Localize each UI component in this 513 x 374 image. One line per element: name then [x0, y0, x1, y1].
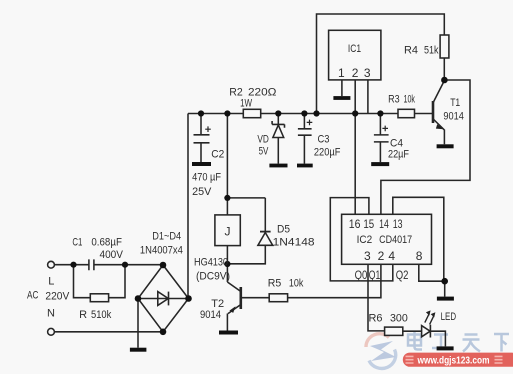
resistor R5 [269, 294, 287, 302]
wire L to C1 [54, 264, 88, 266]
svg-text:14: 14 [379, 217, 389, 231]
diode D5 [227, 232, 272, 264]
svg-text:L: L [48, 275, 54, 287]
wire LED to ground [430, 331, 445, 346]
resistor R4 [440, 35, 449, 58]
ground IC2 [444, 281, 446, 296]
ground VD [269, 164, 287, 168]
IC1 pin1 wire [341, 80, 343, 96]
ground T2 [219, 331, 238, 335]
svg-text:R4: R4 [404, 45, 418, 57]
node IC1 pin2 bus [352, 110, 358, 116]
watermark banner [403, 353, 513, 367]
relay J [215, 215, 240, 246]
transistor T2 [227, 282, 240, 331]
svg-text:C2: C2 [211, 149, 224, 161]
resistor R6 [385, 327, 403, 335]
svg-text:LED: LED [441, 311, 457, 323]
watermark text [408, 332, 509, 352]
IC2 pin13 wrap wire to ground node [393, 197, 444, 281]
svg-text:C1: C1 [72, 237, 82, 249]
node J bus [224, 110, 230, 116]
svg-text:22µF: 22µF [388, 148, 409, 160]
svg-text:220µF: 220µF [314, 147, 341, 159]
terminal N [48, 328, 55, 335]
svg-text:Q1: Q1 [369, 270, 381, 282]
ground C3 [297, 164, 313, 168]
bridge rectifier D1~D4 [138, 265, 189, 332]
capacitor C3 [298, 114, 312, 164]
resistor R3 [398, 109, 415, 117]
transistor T1 [433, 81, 444, 145]
svg-text:Q0: Q0 [355, 270, 368, 282]
node C1-R left [70, 262, 76, 268]
wire R4 bottom to collector node [443, 58, 445, 80]
wire bridge left vertex to ground [137, 299, 139, 348]
ground LED [437, 346, 454, 350]
wire J bottom to node [226, 246, 228, 282]
svg-text:R5: R5 [268, 277, 282, 289]
svg-text:25V: 25V [192, 186, 212, 198]
zener diode VD [272, 114, 284, 164]
svg-text:5V: 5V [259, 145, 269, 157]
svg-text:1W: 1W [240, 97, 252, 109]
svg-text:4: 4 [388, 249, 395, 263]
node bridge right [185, 295, 192, 302]
svg-text:HG4130: HG4130 [194, 257, 228, 269]
svg-text:400V: 400V [100, 249, 124, 261]
wire top rail from bus to R4 [317, 14, 445, 114]
node top rail bus [313, 110, 319, 116]
IC2 pin numbers top [349, 217, 403, 231]
svg-text:IC1: IC1 [348, 43, 361, 55]
svg-text:8: 8 [416, 249, 423, 263]
IC2 box [342, 214, 432, 264]
svg-text:15: 15 [363, 217, 374, 231]
wire R6 to LED [403, 330, 422, 332]
wire C1 to bridge top [94, 264, 163, 266]
IC1 pin2 / IC2 pin16 wire [354, 80, 356, 214]
svg-text:1N4148: 1N4148 [273, 237, 315, 249]
ground C2 [192, 162, 211, 166]
ground IC1 pin1 [333, 96, 350, 100]
svg-text:1: 1 [338, 66, 345, 80]
ground C4 [371, 162, 389, 166]
svg-text:www.dgjs123.com: www.dgjs123.com [417, 354, 490, 366]
svg-text:R: R [79, 309, 87, 321]
svg-text:3: 3 [364, 66, 371, 80]
svg-text:C3: C3 [318, 133, 330, 145]
svg-text:IC2: IC2 [357, 234, 373, 246]
svg-text:51k: 51k [424, 45, 439, 57]
svg-text:0.68µF: 0.68µF [91, 237, 122, 249]
svg-text:N: N [47, 308, 55, 320]
node C1-R right [122, 262, 128, 268]
capacitor C1 [89, 259, 94, 270]
svg-text:(DC9V): (DC9V) [196, 271, 230, 283]
IC1 pin numbers [338, 66, 371, 80]
IC2 output labels Q0 Q1 Q2 [355, 270, 409, 282]
IC1 box [329, 30, 381, 80]
LED [422, 310, 436, 337]
wire N to bridge bottom [54, 331, 163, 333]
node bridge bottom [160, 329, 167, 336]
IC2 pin numbers bottom [364, 249, 423, 263]
IC2 pin8 wire [419, 264, 445, 281]
svg-text:2: 2 [352, 66, 359, 80]
node C3 bus [301, 110, 307, 116]
svg-text:D5: D5 [277, 224, 290, 236]
node C4 bus [377, 110, 383, 116]
wire bus down to relay J [226, 114, 228, 215]
svg-text:10k: 10k [289, 277, 304, 289]
svg-text:CD4017: CD4017 [379, 234, 412, 246]
IC2 pin15 reset wrap wire to pin4 [330, 198, 393, 281]
svg-text:J: J [225, 225, 231, 239]
ground T1 [437, 144, 454, 148]
capacitor C4 [374, 114, 389, 163]
node IC2 ground [441, 278, 448, 285]
svg-text:R6: R6 [369, 312, 383, 324]
svg-text:220Ω: 220Ω [248, 87, 277, 99]
ground bridge [130, 348, 147, 352]
svg-text:16: 16 [349, 217, 361, 231]
wire main +9V bus [188, 113, 432, 115]
svg-text:D1~D4: D1~D4 [152, 231, 181, 243]
resistor R2 [243, 109, 260, 117]
node bridge top [160, 262, 167, 269]
svg-text:3: 3 [364, 249, 371, 263]
wire D5 top branch [227, 198, 265, 231]
IC2 pin3 wire to R6 [368, 264, 385, 331]
node T1 collector [441, 77, 448, 84]
terminal L [48, 261, 55, 268]
svg-text:Q2: Q2 [396, 270, 409, 282]
wire T1 collector loop to IC2 pin14 [381, 80, 470, 214]
svg-text:9014: 9014 [443, 111, 464, 123]
resistor R [90, 294, 108, 302]
svg-text:1N4007x4: 1N4007x4 [140, 245, 183, 257]
svg-text:T1: T1 [450, 97, 460, 109]
svg-text:9014: 9014 [200, 309, 221, 321]
svg-text:510k: 510k [91, 309, 112, 321]
wire R5 to IC2 pin2 [288, 264, 381, 297]
svg-text:2: 2 [378, 249, 385, 263]
capacitor C2 [194, 114, 211, 163]
svg-text:220V: 220V [45, 291, 70, 303]
wire T2 base to R5 [241, 297, 269, 299]
svg-text:R3: R3 [388, 94, 400, 106]
svg-text:VD: VD [257, 133, 269, 145]
svg-text:13: 13 [393, 217, 403, 231]
svg-text:300: 300 [390, 312, 408, 324]
wire bus to bridge right vertex [187, 114, 189, 299]
IC1 pin3 wire [367, 80, 369, 114]
node J top D5 [224, 195, 230, 201]
node VD bus [275, 110, 281, 116]
svg-text:AC: AC [27, 289, 38, 301]
svg-text:10k: 10k [404, 94, 416, 106]
node bridge left [135, 295, 142, 302]
resistor R loop wires [74, 265, 126, 298]
node C2 bus [198, 110, 204, 116]
svg-text:470 µF: 470 µF [192, 171, 221, 183]
node J bottom D5 T2 [224, 261, 230, 267]
watermark logo swirl [366, 334, 396, 369]
